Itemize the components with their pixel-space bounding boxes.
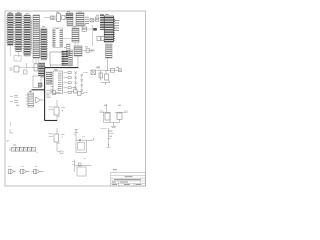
reference designator labels (tiny text specks) xyxy=(9,11,122,145)
wire xyxy=(94,19,97,21)
IC U6 (small, hatched) xyxy=(66,13,73,26)
resistor pack R15 (left of J1) xyxy=(97,37,104,41)
transistor Q1 circuit xyxy=(49,100,66,121)
wire pair, address bus stubs xyxy=(10,20,38,65)
title block text lines xyxy=(112,176,142,185)
IC U8 (large) xyxy=(104,16,113,42)
IC U13 (small hatched) xyxy=(39,63,45,77)
capacitor C2,C3 (stacked) xyxy=(10,95,18,102)
crystal Y1 group xyxy=(46,88,60,95)
capacitor C5 xyxy=(119,69,122,72)
IC U15 (driver) xyxy=(26,90,34,107)
transistor Q4 circuit xyxy=(100,104,114,123)
gate G1 (inverter) xyxy=(8,166,16,174)
power rail with caps C7,C8 xyxy=(101,128,115,148)
wire, power bus (thick) xyxy=(32,67,79,121)
diode D2 xyxy=(91,49,94,52)
wire xyxy=(82,50,95,52)
resistor R4, R5 xyxy=(82,27,87,31)
sheet border frame xyxy=(5,11,146,186)
resistor R7 xyxy=(10,66,28,74)
diode D8 (boxed) xyxy=(91,70,96,75)
pin rows xyxy=(46,71,52,85)
connector J1 (below U8) xyxy=(106,44,113,58)
resistor R3 xyxy=(96,17,99,21)
IC U7 xyxy=(76,12,84,26)
IC U14 inner block xyxy=(38,83,42,87)
IC U4 (DIP) xyxy=(33,15,40,58)
IC U11 xyxy=(74,46,82,56)
IC U12 (body outline, right pin hatch) xyxy=(50,50,73,66)
regulator circuit (right of U8) xyxy=(96,68,122,85)
crystal Y2 group xyxy=(71,90,85,96)
resistor R14 xyxy=(100,70,102,80)
transistor Q5 circuit xyxy=(114,111,129,123)
title block xyxy=(111,173,146,187)
gate G3 (inverter) xyxy=(32,166,44,174)
wire, top chain input xyxy=(44,17,51,19)
resistor network RP1 xyxy=(10,147,38,153)
IC U9 xyxy=(53,28,63,48)
diode D1 xyxy=(90,19,94,23)
transistor Q3 xyxy=(105,70,107,74)
net label xyxy=(113,168,117,171)
test point TP1 xyxy=(9,122,11,126)
resistor R2 xyxy=(62,16,66,20)
IC U2 lower body xyxy=(14,56,21,62)
pin field of U7 xyxy=(85,16,89,24)
IC U14 (block above bus) xyxy=(33,76,41,88)
wire xyxy=(107,58,109,70)
relay K1 circuit (mid-bottom) xyxy=(74,130,94,153)
capacitor C6 (shared ground) xyxy=(111,123,116,128)
switch SW1 circuit (bottom-mid) xyxy=(72,159,92,176)
node tick xyxy=(7,141,9,143)
inductor L1 xyxy=(111,68,115,72)
wire xyxy=(61,25,94,46)
transistor Q2 circuit xyxy=(49,128,65,154)
IC U5 (DIP) xyxy=(41,28,47,60)
pin field of U8 xyxy=(100,14,104,30)
IC U1 (DIP, top-left column) xyxy=(8,14,14,46)
IC U2 (DIP) xyxy=(16,14,22,52)
connector J3 (header) xyxy=(51,71,63,94)
LED/diode ladder rows D3-D7 with resistors R9-R13 xyxy=(64,71,88,93)
pin stubs of U8 xyxy=(114,18,115,41)
resistor R8 xyxy=(34,64,38,72)
pin stubs of U1..U5 xyxy=(6,15,48,59)
capacitor C1 (electrolytic) xyxy=(57,14,61,22)
IC U3 (DIP) xyxy=(24,15,30,56)
resistor R6 xyxy=(86,49,90,52)
wire xyxy=(19,63,27,68)
buffer U16 (triangle) xyxy=(36,97,44,103)
gate G2 (inverter) xyxy=(19,166,30,174)
IC U10 xyxy=(72,28,79,42)
ground symbol xyxy=(10,129,13,133)
connector J2 (narrow) xyxy=(67,44,71,56)
resistor R1 xyxy=(51,16,56,20)
pin stubs of U9 xyxy=(53,29,63,48)
wire xyxy=(26,56,78,68)
ferrite bead FB1 xyxy=(93,28,97,31)
